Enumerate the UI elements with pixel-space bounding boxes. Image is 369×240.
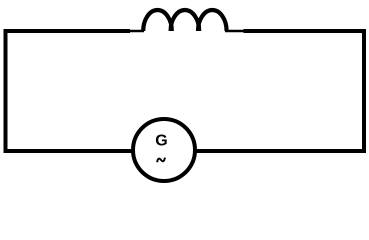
svg-text:G: G (155, 133, 167, 150)
